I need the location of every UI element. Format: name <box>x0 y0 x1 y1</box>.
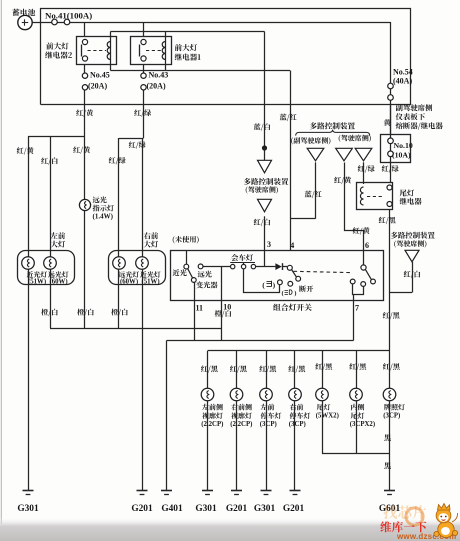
wire label red/white branch <box>404 271 420 278</box>
lamp2 name 视廓灯 <box>231 412 252 419</box>
wire pin 7 down <box>353 301 355 341</box>
wire lamp2 drop <box>236 351 238 388</box>
wire right high-beam to orange/white bus <box>118 269 120 328</box>
wire label red/yellow left drop <box>17 147 34 154</box>
multiplex unit driver label line2 <box>246 186 278 193</box>
headlight switch pivot <box>287 265 292 270</box>
passing contact 3 <box>251 264 255 268</box>
wire relay1 output to fuse No.43 <box>143 65 145 74</box>
wire coil top link (relay coils to blue/white drop) <box>111 31 265 33</box>
svg-text:3: 3 <box>267 240 271 249</box>
wire middle horizontal bus <box>41 104 391 106</box>
headlight switch contact mid <box>288 281 293 286</box>
tail switch contact left <box>350 279 355 284</box>
wire label red/black lamp1 <box>201 365 218 372</box>
svg-text:(10A): (10A) <box>392 151 411 160</box>
wire label red/black 2 <box>383 312 400 319</box>
svg-text:G301: G301 <box>195 504 217 514</box>
ground G401 switch return <box>161 490 172 492</box>
wire label yellow <box>384 119 391 126</box>
wire lamp4 drop <box>294 351 296 388</box>
wire right low-beam down to ground G201 <box>142 269 144 491</box>
wire left vertical battery junction down to middle bus <box>40 22 42 105</box>
wire label red/yellow triangle2 <box>334 177 351 184</box>
wire label red/black lamp3 <box>259 365 276 372</box>
wire loop over top (battery junction to right side) <box>41 9 411 105</box>
lamp 7 (3CP) <box>383 388 396 401</box>
wire lamp3 to ground <box>266 401 268 491</box>
headlight relay 2 label line1 <box>46 42 68 49</box>
dimmer low label <box>173 269 187 276</box>
ground G201 lamp4 <box>290 490 301 492</box>
connector triangle multiplex driver side (out) <box>258 199 272 212</box>
tail light relay coil <box>360 187 363 205</box>
connector triangle 2 (driver, red/yellow) <box>336 148 353 161</box>
headlight switch contact on (yo) <box>278 280 283 285</box>
watermark stamp ring <box>406 508 423 525</box>
wire label red/black tail output <box>379 217 396 224</box>
tail switch contact mid <box>361 282 366 287</box>
wire dimmer common horizontal <box>203 266 231 268</box>
svg-text:(20A): (20A) <box>147 82 166 91</box>
multiplex passenger bracket label <box>291 137 330 144</box>
lamp1 name 左前侧 <box>202 404 223 411</box>
wire label black 1 <box>384 434 391 441</box>
wire label orange/white 2 <box>77 309 94 316</box>
svg-text:(60W): (60W) <box>50 279 68 286</box>
lamp6 name 尾灯 <box>351 412 365 419</box>
left headlight title line1 <box>51 232 65 239</box>
wire lamp2 to ground <box>236 401 238 491</box>
wire passing c2 to on-contact <box>244 269 280 293</box>
wire relay1 contact column from bus <box>143 22 145 37</box>
svg-text:): ) <box>294 290 296 297</box>
dimmer high-beam contact <box>198 264 203 269</box>
wire left low-beam to ground G301 <box>28 269 30 491</box>
scan left edge shadow <box>0 0 2 524</box>
dimmer high label <box>198 271 212 278</box>
wire indicator lamp down to orange/white bus <box>84 210 86 328</box>
headlight relay 1 coil <box>162 42 165 60</box>
wire label red/black lamp4 <box>288 365 305 372</box>
headlight relay 2 dashed link <box>88 50 107 52</box>
wire lamp6 drop <box>356 351 358 388</box>
svg-text:No.45: No.45 <box>90 71 110 80</box>
left high beam lamp <box>44 257 57 270</box>
lamp3 name 停车灯 <box>261 412 282 419</box>
svg-text:(3CP): (3CP) <box>383 413 400 420</box>
battery <box>18 15 32 29</box>
wire relay2 contact column from bus <box>84 22 86 37</box>
wire label blue/red branch <box>305 191 322 198</box>
headlight relay 2 label line2 <box>45 51 72 58</box>
tail switch contact off <box>371 279 376 284</box>
ground G601 tail <box>384 490 395 492</box>
headlight relay 1 label line1 <box>175 44 197 51</box>
lamp2 name 右前侧 <box>231 404 252 411</box>
svg-text:(51W): (51W) <box>142 279 160 286</box>
wire lamp drop to black collector <box>356 401 358 454</box>
passing lamp underline <box>230 262 255 264</box>
wire fuse No.45 down red/yellow <box>84 90 86 137</box>
wire label red/green right branch drop <box>109 157 126 164</box>
lamp7 name 牌照灯 <box>384 404 405 411</box>
wire right high-beam drop <box>118 138 120 257</box>
passenger fuse box label line3 <box>396 122 443 130</box>
watermark faint stamp <box>383 505 426 519</box>
wire lamp4 to ground <box>294 401 296 491</box>
left headlight box <box>18 251 75 285</box>
wire label red/green under fuse43 <box>134 109 151 116</box>
lamp3 name 左前 <box>261 404 275 411</box>
headlight relay 2 coil <box>107 42 110 60</box>
wire orange/white bus <box>50 328 222 330</box>
wire dot to connector triangle <box>264 148 266 160</box>
combination light switch box <box>171 251 384 301</box>
wire left high-beam drop <box>50 137 52 257</box>
wire driver-side module branch vertical <box>412 262 414 293</box>
dimmer pivot contact <box>191 278 196 283</box>
lamp4 name 右前 <box>290 404 304 411</box>
wire label red/white pin3 <box>254 219 270 226</box>
wire triangle1 branch to pin4 column <box>290 218 316 220</box>
right headlight box <box>109 251 166 285</box>
svg-text:G601: G601 <box>379 504 401 514</box>
lamp5 name 尾灯 <box>317 404 331 411</box>
passing lamp label <box>231 254 253 261</box>
headlight relay 2 contact <box>82 39 87 44</box>
switch coupling dashed <box>294 271 352 272</box>
wire tail relay output red/black down <box>389 210 391 352</box>
right low beam label <box>140 271 160 277</box>
svg-text:(2.2CP): (2.2CP) <box>230 421 252 428</box>
headlight relay 1 dashed link <box>146 50 161 52</box>
ground G301 left headlight <box>23 490 34 492</box>
connector triangle multiplex driver side (in) <box>258 160 272 173</box>
svg-text:(3CP): (3CP) <box>289 421 306 428</box>
fuse No.41 (100A) <box>52 19 58 25</box>
wire tail contacts junction down <box>353 295 355 301</box>
wire triangle2 red/yellow to pin 6 <box>345 163 364 265</box>
connector triangle multiplex driver (red/white) <box>405 250 419 261</box>
tail switch arm <box>365 269 371 279</box>
svg-text:G201: G201 <box>226 504 248 514</box>
dimmer arm <box>188 269 193 278</box>
lamp 2 (2.2CP) <box>230 388 243 401</box>
left low beam label <box>27 271 47 277</box>
multiplex unit driver label line1 <box>244 178 289 185</box>
wire relay2 output to fuse No.45 <box>84 65 86 74</box>
passing contact 2 <box>241 264 245 268</box>
wire lamp5 drop <box>322 351 324 388</box>
left high beam label <box>48 271 68 277</box>
wire relay2 coil column <box>110 32 112 71</box>
wire No.54 column down <box>390 22 392 134</box>
lamp 6 (3CPX2) <box>350 388 363 401</box>
wire triangle1 blue/red branch down <box>315 162 317 218</box>
wire pin 10 down through orange/white bus <box>221 267 223 341</box>
svg-text:(51W): (51W) <box>28 279 46 286</box>
svg-text:7: 7 <box>355 303 359 312</box>
wire lamp7 to ground <box>389 401 391 491</box>
combination switch label <box>273 304 312 311</box>
tail light relay box <box>357 183 393 210</box>
svg-text:G301: G301 <box>254 504 276 514</box>
wire battery to fuse No.41 bus (top feed) <box>32 22 391 24</box>
wire lamp1 to ground <box>207 401 209 491</box>
passing contact 1 <box>231 264 235 268</box>
connector triangle 1 (passenger, blue/red) <box>307 148 324 161</box>
wire label red/yellow under fuse45 <box>76 109 93 116</box>
wire triangle3 red/green to tail relay coil <box>363 162 365 184</box>
wire ground link to G401 <box>166 341 168 492</box>
tail switch pivot <box>361 265 366 270</box>
position icon (yo) <box>267 281 272 287</box>
wire lamp1 drop <box>207 351 209 388</box>
wire lamp7 drop <box>389 351 391 388</box>
dimmer unused stub <box>186 251 188 265</box>
scan bottom shadow band <box>0 517 460 541</box>
svg-text:(3CPX2): (3CPX2) <box>350 421 375 428</box>
passenger fuse box label line2 <box>396 113 425 120</box>
headlight switch arm <box>292 270 297 277</box>
headlight relay 2 box <box>77 37 117 65</box>
wire blue/white drop <box>264 32 266 149</box>
right low beam lamp <box>136 257 149 270</box>
lamp 4 (3CP) <box>289 388 302 401</box>
wire lamp supply bus red/black <box>208 350 390 352</box>
wire label orange/white 3 <box>111 309 128 316</box>
wire label red/green lamp2 <box>129 141 146 148</box>
lamp1 name 视廓灯 <box>202 412 223 419</box>
fuse No.10 (10A) <box>388 138 394 144</box>
headlight relay 1 contact <box>141 39 146 44</box>
left low beam lamp <box>22 257 35 270</box>
svg-text:4: 4 <box>290 241 294 250</box>
wire ground link bar <box>167 340 354 342</box>
fuse No.10 box <box>381 135 411 163</box>
wire multiplex connector to pin3 red/white <box>264 216 266 266</box>
wire label red/black lamp5 <box>315 363 332 370</box>
svg-text:(20A): (20A) <box>88 82 107 91</box>
fuse No.54 (40A) <box>388 83 394 89</box>
tail light relay contacts <box>387 185 392 190</box>
wire label red/green triangle3 <box>358 165 375 172</box>
svg-text:(5WX2): (5WX2) <box>316 413 339 420</box>
wire passing contacts to diode <box>256 266 276 268</box>
wire label black 2 <box>384 462 391 469</box>
svg-text:(60W): (60W) <box>120 279 138 286</box>
svg-text:G301: G301 <box>17 504 39 514</box>
right headlight title line2 <box>144 241 158 248</box>
svg-text:No.54: No.54 <box>393 68 413 77</box>
ground G201 lamp2 <box>231 490 242 492</box>
position icon (=D) <box>285 290 293 295</box>
wire label red/green below No.10 <box>382 165 399 172</box>
svg-text:6: 6 <box>365 241 369 250</box>
multiplex driver bracket label <box>339 135 371 142</box>
left headlight title line2 <box>51 241 65 248</box>
wire fuse No.43 down red/green <box>143 90 145 138</box>
svg-text:G201: G201 <box>131 504 153 514</box>
lamp 1 (2.2CP) <box>201 388 214 401</box>
wire red/yellow main down to indicator <box>84 137 86 200</box>
fuse No.45 (20A) <box>82 73 87 78</box>
svg-text:No.10: No.10 <box>394 141 413 150</box>
lamp6 name 内侧 <box>351 404 364 411</box>
wire tail switch contacts to pin 7 <box>353 284 364 295</box>
headlight relay 1 label line2 <box>175 53 201 60</box>
wire label orange/white 4 <box>215 310 232 317</box>
wire label red/white <box>41 157 57 164</box>
right high beam label <box>119 271 139 277</box>
ground G301 lamp3 <box>261 490 272 492</box>
svg-text:(2.2CP): (2.2CP) <box>201 421 223 428</box>
svg-text:No.41(100A): No.41(100A) <box>45 10 92 20</box>
tail light relay dashed link <box>367 196 384 198</box>
wire black collector <box>322 453 390 455</box>
tail relay label line1 <box>400 189 414 196</box>
ground G201 right low beam <box>137 490 148 492</box>
wire driver-side module branch to main <box>390 292 413 294</box>
wire label red/yellow main <box>73 146 90 153</box>
wire No.54 output through No.10 fuse (yellow) <box>390 104 392 182</box>
svg-text:10: 10 <box>223 302 231 311</box>
wire right headlight branch <box>119 138 144 140</box>
watermark mascot <box>434 504 458 538</box>
indicator label line1 <box>93 196 107 203</box>
dimmer name <box>196 281 217 288</box>
wire lamp drop to black collector <box>322 401 324 454</box>
svg-text:11: 11 <box>196 303 204 312</box>
wire pin 11 down <box>194 282 196 340</box>
overbrace multiplex connectors <box>296 130 370 136</box>
wire label blue/white <box>254 123 270 130</box>
wire lamp3 drop <box>266 351 268 388</box>
svg-text:(40A): (40A) <box>393 77 412 86</box>
diode <box>275 263 281 270</box>
dimmer low-beam contact <box>184 264 189 269</box>
svg-text:(: ( <box>282 290 284 297</box>
svg-text:No.43: No.43 <box>149 71 169 80</box>
wire coil bottom link (relay coils to blue/red drop) <box>111 70 291 72</box>
right high beam lamp <box>113 257 126 270</box>
wire label red/yellow pin6 <box>353 227 370 234</box>
svg-text:(1.4W): (1.4W) <box>93 213 114 221</box>
multiplex driver unit lower label line2 <box>394 240 426 247</box>
right headlight title line1 <box>144 232 158 239</box>
wire label orange/white 1 <box>41 309 58 316</box>
svg-text:G201: G201 <box>283 504 305 514</box>
battery label <box>12 9 35 16</box>
wire blue/red drop to pin 4 <box>290 71 292 251</box>
wire right low-beam drop <box>142 138 144 257</box>
headlight relay 1 box <box>131 37 172 65</box>
headlight switch contact off <box>296 276 301 281</box>
fuse No.43 (20A) <box>141 73 146 78</box>
lamp4 name 停车灯 <box>290 412 311 419</box>
wire label blue/red <box>280 114 297 121</box>
passenger fuse box label line1 <box>396 104 433 111</box>
ground G301 lamp1 <box>202 490 213 492</box>
off label <box>299 285 313 292</box>
junction dot blue/white node <box>262 145 267 150</box>
multiplex top label <box>310 122 355 129</box>
svg-text:G401: G401 <box>161 504 183 514</box>
wire label red/black lamp2 <box>230 365 247 372</box>
wire label red/black lamp6 <box>349 363 366 370</box>
wire label red/black lamp7 <box>383 363 400 370</box>
wire left low-beam drop <box>28 137 30 257</box>
unused label <box>173 236 199 244</box>
high beam indicator lamp (1.4W) <box>79 199 90 210</box>
wire relay1 coil column <box>165 32 167 71</box>
lamp 5 (5WX2) <box>316 388 329 401</box>
passing contact stub <box>243 263 245 265</box>
indicator label line2 <box>93 205 114 212</box>
wire left headlight branch <box>28 136 85 138</box>
lamp 3 (3CP) <box>260 388 273 401</box>
connector triangle 3 (driver, red/green) <box>355 148 372 161</box>
tail relay label line2 <box>400 198 422 205</box>
multiplex driver unit lower label line1 <box>391 232 435 239</box>
svg-text:(3CP): (3CP) <box>260 421 277 428</box>
wire left high-beam to orange/white bus <box>50 269 52 328</box>
watermark weiku text <box>380 521 426 532</box>
